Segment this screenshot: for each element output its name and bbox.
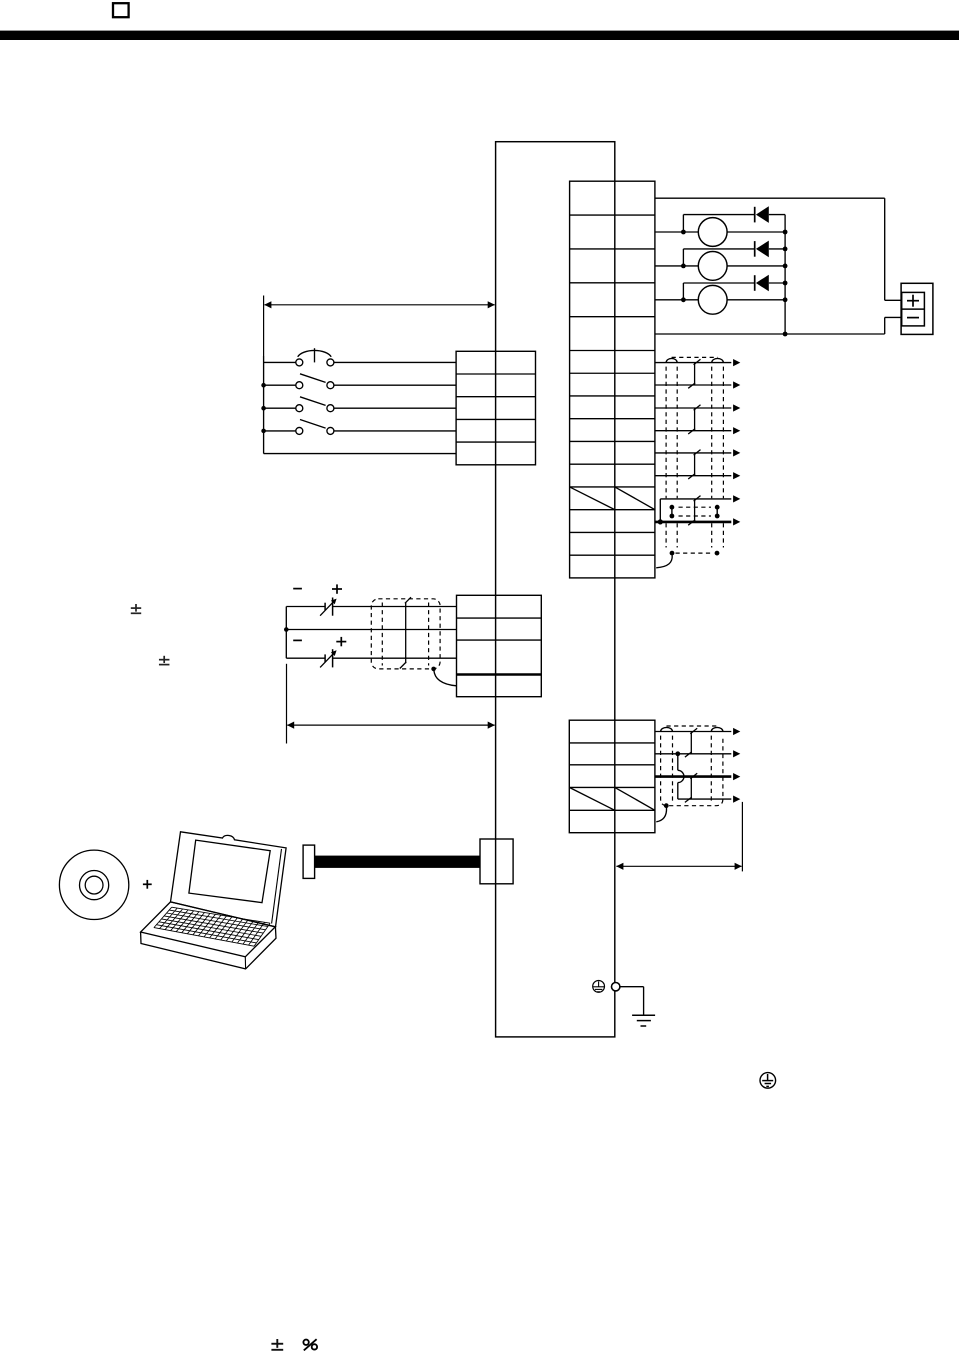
LG tap with wire hop	[675, 751, 684, 799]
ST2 switch contact	[261, 420, 456, 435]
CD-ROM disc	[59, 850, 128, 919]
dimension line (encoder cable span)	[616, 802, 742, 872]
relay RA2 coil	[655, 252, 785, 281]
dashed shield inner lines (encoder)	[672, 736, 674, 803]
twist symbol (analog pair)	[400, 597, 411, 668]
SON switch contact	[261, 374, 456, 389]
dimension line (input wiring span)	[264, 296, 495, 357]
shielded twisted pair (analog input)	[371, 599, 440, 669]
footnote plus-minus percent	[271, 1339, 283, 1350]
variable DC source 1 (speed command)	[286, 584, 456, 615]
earth ground symbol	[632, 1015, 655, 1026]
terminal block analog inputs (left)	[457, 595, 542, 696]
monitor output box (left edge + wires)	[655, 495, 740, 525]
emergency stop contact	[264, 348, 457, 366]
variable DC source 2 (torque limit)	[286, 637, 456, 668]
PE symbol at amplifier	[593, 981, 605, 993]
shield jacket domes (encoder bundle)	[661, 727, 673, 731]
wire: SG common to external supply (-)	[655, 333, 885, 335]
communication cable connector (PC side)	[303, 845, 315, 878]
terminal block CN1A encoder outputs (lower right)	[569, 720, 655, 833]
twist symbols (encoder pairs)	[685, 728, 697, 802]
dashed shield lines (output bundle)	[666, 367, 723, 548]
shield drain curve to plate (output bundle)	[656, 555, 672, 568]
PE symbol (motor side)	[760, 1073, 776, 1089]
wire: source bus tap to VC terminal	[284, 627, 289, 632]
diode D2	[683, 241, 785, 266]
dimension line (analog wiring span)	[287, 664, 495, 744]
dashed shield top link	[672, 356, 718, 358]
section number box (header square)	[113, 3, 129, 17]
PE terminal circle	[612, 983, 620, 991]
diode D3	[683, 275, 785, 300]
shield drain dot and curve (encoder)	[664, 803, 669, 808]
terminal block CN1 (upper right)	[570, 181, 655, 578]
communication cable connector (amplifier side)	[480, 839, 513, 884]
dashed shield outline (encoder bundle)	[661, 736, 723, 806]
shield jacket domes over first wire	[666, 358, 677, 362]
shield termination dots in box	[670, 505, 720, 519]
external 24VDC supply	[901, 283, 933, 334]
no-connection diagonal cells (lower)	[569, 787, 615, 810]
no-connection diagonal cells (CN1)	[570, 487, 615, 510]
wire: COM+ to external supply (+)	[655, 197, 885, 199]
plus sign between CD and PC	[143, 883, 152, 885]
twist symbols (output pairs)	[688, 359, 700, 525]
laptop personal computer	[141, 832, 287, 969]
ST1 switch contact	[261, 397, 456, 412]
analog command source bus	[285, 607, 287, 659]
relay RA1 coil	[655, 218, 785, 247]
encoder output wires with arrows	[655, 728, 740, 803]
dashed shield top link (encoder)	[667, 725, 718, 727]
header thick rule	[0, 31, 959, 40]
terminal block CN1B inputs (left)	[456, 351, 535, 465]
digital output wires with arrows	[655, 359, 740, 479]
wire: PE terminal to earth	[620, 986, 644, 988]
diode D1	[683, 206, 785, 232]
plus-minus label (speed command)	[131, 604, 141, 613]
plus-minus label (torque limit)	[159, 656, 170, 665]
communication cable	[315, 856, 480, 868]
output common bus	[783, 215, 788, 337]
input contact bus wire	[263, 356, 265, 454]
shield drain to LG (analog)	[431, 667, 436, 672]
servo amplifier outline	[496, 142, 615, 1037]
shield drain dots and link (output bundle bottom)	[670, 551, 720, 556]
relay RA3 coil	[655, 285, 785, 314]
